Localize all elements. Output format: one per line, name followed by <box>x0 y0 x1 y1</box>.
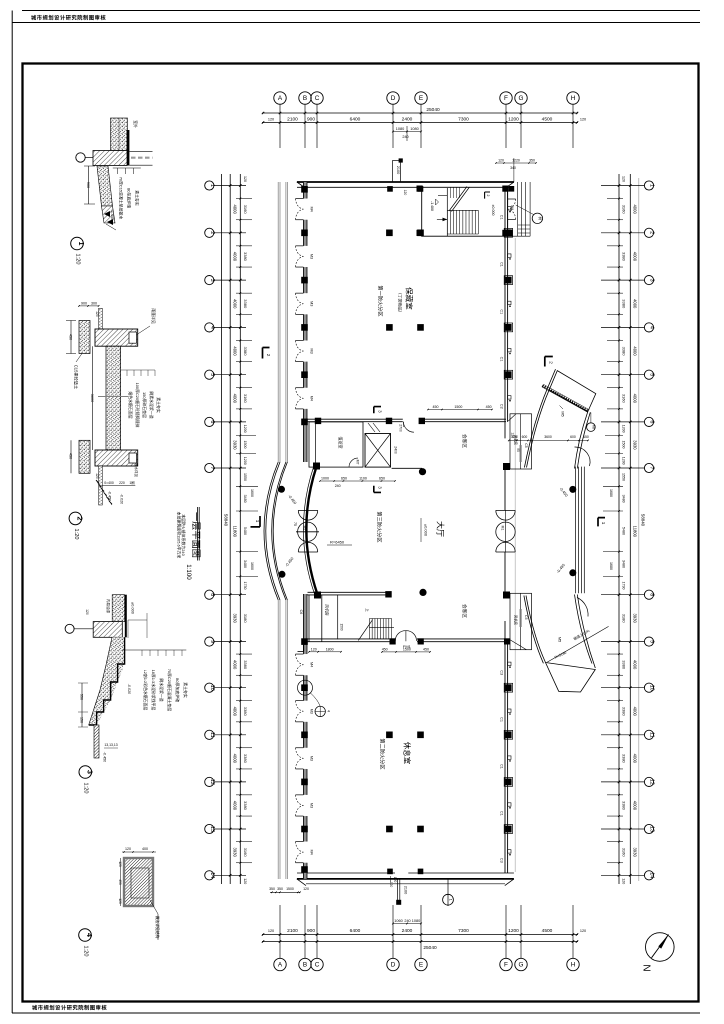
svg-text:3380: 3380 <box>621 801 626 811</box>
svg-text:3930: 3930 <box>232 440 237 450</box>
svg-text:3180: 3180 <box>621 614 626 624</box>
svg-text:第三防火分区: 第三防火分区 <box>376 511 384 542</box>
svg-text:120: 120 <box>303 887 309 891</box>
svg-text:F: F <box>504 95 508 102</box>
svg-text:M2: M2 <box>303 526 307 531</box>
svg-text:120: 120 <box>580 929 586 933</box>
svg-text:1060: 1060 <box>394 919 402 923</box>
svg-text:4000: 4000 <box>232 660 237 670</box>
svg-text:120: 120 <box>243 878 247 884</box>
svg-text:900: 900 <box>86 182 90 188</box>
svg-text:120: 120 <box>498 159 504 163</box>
svg-text:2400: 2400 <box>394 446 398 454</box>
svg-text:H: H <box>571 962 576 969</box>
svg-text:18厚1:3水泥砂浆找平层: 18厚1:3水泥砂浆找平层 <box>151 670 156 711</box>
svg-text:FM1: FM1 <box>403 644 412 649</box>
svg-text:75: 75 <box>293 522 297 526</box>
svg-text:C5: C5 <box>524 443 528 447</box>
svg-text:D: D <box>391 95 396 102</box>
svg-text:4000: 4000 <box>232 754 237 764</box>
svg-text:4000: 4000 <box>633 252 638 262</box>
svg-text:400: 400 <box>142 847 148 851</box>
svg-text:C1: C1 <box>500 764 504 769</box>
svg-text:120: 120 <box>621 878 625 884</box>
svg-text:4: 4 <box>85 933 92 937</box>
svg-text:雨蓬详见: 雨蓬详见 <box>151 308 156 324</box>
svg-text:本层防火缝体系数为240: 本层防火缝体系数为240 <box>181 514 186 556</box>
svg-text:1200: 1200 <box>243 457 247 465</box>
svg-text:C1: C1 <box>500 357 504 362</box>
svg-text:11: 11 <box>649 732 655 738</box>
svg-text:3480: 3480 <box>243 495 247 503</box>
svg-text:做法详见结构: 做法详见结构 <box>155 916 160 939</box>
svg-text:100厚C20细石砼随捣随抹: 100厚C20细石砼随捣随抹 <box>135 383 140 428</box>
svg-text:2: 2 <box>549 361 554 364</box>
svg-text:650: 650 <box>379 477 385 481</box>
svg-text:3380: 3380 <box>621 347 626 357</box>
svg-text:M1: M1 <box>501 526 505 531</box>
svg-text:9: 9 <box>649 640 655 643</box>
svg-text:10: 10 <box>649 685 655 691</box>
svg-text:树: 树 <box>538 217 543 221</box>
svg-text:8: 8 <box>649 593 655 596</box>
svg-text:-0.020: -0.020 <box>127 684 131 694</box>
svg-text:B0厚灰底炉碴: B0厚灰底炉碴 <box>175 678 180 702</box>
svg-text:L2剖1:2彩色水磨石面层: L2剖1:2彩色水磨石面层 <box>143 670 148 711</box>
svg-text:M4: M4 <box>310 396 314 401</box>
svg-text:城市规划设计研究院制图审核: 城市规划设计研究院制图审核 <box>32 1004 107 1012</box>
svg-text:-0.020: -0.020 <box>120 494 124 504</box>
svg-text:1550: 1550 <box>621 473 625 481</box>
svg-text:3600: 3600 <box>90 394 94 402</box>
svg-text:1220: 1220 <box>512 159 520 163</box>
svg-text:M7: M7 <box>356 460 360 465</box>
svg-text:4500: 4500 <box>542 116 553 122</box>
svg-text:R=6450: R=6450 <box>330 540 345 545</box>
svg-text:4: 4 <box>649 326 655 329</box>
svg-text:刷素水泥浆一道: 刷素水泥浆一道 <box>149 391 154 418</box>
svg-text:1:100: 1:100 <box>185 564 192 580</box>
svg-text:H: H <box>571 95 576 102</box>
svg-text:-1.488: -1.488 <box>430 201 434 211</box>
svg-text:B0灰底炉碴: B0灰底炉碴 <box>127 188 132 208</box>
svg-text:1080: 1080 <box>410 127 418 131</box>
svg-text:58840: 58840 <box>641 514 646 527</box>
svg-text:3380: 3380 <box>621 299 626 309</box>
svg-text:90: 90 <box>516 448 520 452</box>
svg-text:120: 120 <box>621 176 625 182</box>
svg-text:350: 350 <box>269 887 275 891</box>
svg-text:3380: 3380 <box>243 707 248 717</box>
svg-text:12: 12 <box>649 779 655 785</box>
svg-text:120: 120 <box>95 311 99 317</box>
svg-text:220: 220 <box>119 481 125 485</box>
svg-text:M4: M4 <box>310 207 314 212</box>
svg-text:M3: M3 <box>310 301 314 306</box>
svg-text:2: 2 <box>486 195 490 197</box>
svg-text:4000: 4000 <box>633 660 638 670</box>
svg-text:4000: 4000 <box>633 204 638 214</box>
svg-text:3: 3 <box>649 279 655 282</box>
svg-text:1: 1 <box>77 242 84 246</box>
svg-text:素土夯实: 素土夯实 <box>135 190 140 206</box>
svg-text:大厅: 大厅 <box>435 521 445 537</box>
svg-text:7: 7 <box>649 467 655 470</box>
svg-text:M3: M3 <box>310 803 314 808</box>
svg-text:-1.450: -1.450 <box>110 209 115 221</box>
svg-text:3180: 3180 <box>243 614 248 624</box>
svg-text:11800: 11800 <box>232 526 237 538</box>
svg-text:4000: 4000 <box>232 299 237 309</box>
svg-text:M3: M3 <box>310 254 314 259</box>
svg-text:3930: 3930 <box>633 613 638 623</box>
svg-text:1200: 1200 <box>508 116 519 122</box>
svg-text:1刷: 1刷 <box>129 480 135 485</box>
svg-text:6400: 6400 <box>350 928 361 934</box>
svg-text:900: 900 <box>81 301 87 305</box>
svg-text:M3: M3 <box>310 348 314 353</box>
svg-text:C: C <box>315 95 320 102</box>
svg-text:3480: 3480 <box>621 560 625 568</box>
svg-text:D: D <box>391 962 396 969</box>
svg-text:120: 120 <box>403 190 407 196</box>
svg-text:1200: 1200 <box>621 425 625 433</box>
svg-text:900: 900 <box>307 928 315 934</box>
svg-text:0=400: 0=400 <box>104 481 114 485</box>
svg-text:1:20: 1:20 <box>75 254 81 265</box>
svg-text:4000: 4000 <box>633 707 638 717</box>
svg-text:25040: 25040 <box>426 107 440 113</box>
svg-text:1080: 1080 <box>396 127 404 131</box>
svg-text:240: 240 <box>402 135 408 139</box>
svg-text:N: N <box>641 964 652 971</box>
svg-text:13: 13 <box>649 826 655 832</box>
svg-text:2: 2 <box>266 354 271 357</box>
svg-text:11800: 11800 <box>633 526 638 538</box>
svg-text:4: 4 <box>327 710 331 712</box>
svg-text:1500: 1500 <box>340 623 344 630</box>
svg-text:120: 120 <box>118 861 122 867</box>
svg-text:150厚碎石垫层: 150厚碎石垫层 <box>142 392 147 418</box>
svg-text:5: 5 <box>649 373 655 376</box>
svg-text:3930: 3930 <box>633 440 638 450</box>
svg-text:保藏室: 保藏室 <box>405 287 415 310</box>
svg-text:C6: C6 <box>299 610 303 615</box>
svg-text:1680: 1680 <box>609 562 613 570</box>
svg-text:1550: 1550 <box>243 473 247 481</box>
svg-text:1730: 1730 <box>621 582 625 590</box>
svg-text:2: 2 <box>75 516 82 520</box>
svg-text:2100: 2100 <box>287 116 298 122</box>
svg-text:120: 120 <box>389 882 393 888</box>
svg-text:25040: 25040 <box>423 945 437 951</box>
svg-text:120: 120 <box>268 929 274 933</box>
svg-text:350: 350 <box>529 159 535 163</box>
svg-text:（丁类物品）: （丁类物品） <box>398 291 404 315</box>
svg-text:值班室: 值班室 <box>338 437 344 449</box>
svg-text:室外: 室外 <box>133 120 138 128</box>
svg-text:会客区: 会客区 <box>461 434 468 448</box>
svg-text:刷水泥浆一道: 刷水泥浆一道 <box>159 678 164 701</box>
svg-text:1600: 1600 <box>250 489 254 497</box>
svg-text:340: 340 <box>510 166 516 170</box>
svg-text:1:20: 1:20 <box>83 946 89 957</box>
svg-text:120: 120 <box>125 847 131 851</box>
svg-text:3380: 3380 <box>243 754 248 764</box>
svg-text:3380: 3380 <box>621 252 626 262</box>
svg-text:A: A <box>278 95 283 102</box>
svg-text:3930: 3930 <box>633 847 638 857</box>
svg-text:M5: M5 <box>561 411 566 417</box>
svg-text:5480: 5480 <box>243 527 247 535</box>
svg-text:450: 450 <box>433 405 439 409</box>
svg-text:4500: 4500 <box>542 928 553 934</box>
svg-text:600: 600 <box>570 435 576 439</box>
svg-text:1500: 1500 <box>621 441 625 449</box>
svg-text:120: 120 <box>85 609 89 615</box>
svg-text:3380: 3380 <box>243 299 248 309</box>
svg-text:120: 120 <box>118 898 122 904</box>
svg-text:2400: 2400 <box>402 928 413 934</box>
svg-text:素土夯实: 素土夯实 <box>183 682 188 698</box>
svg-text:350: 350 <box>277 887 283 891</box>
svg-text:C3: C3 <box>500 670 504 675</box>
svg-text:B: B <box>303 95 307 102</box>
svg-text:550: 550 <box>80 694 84 700</box>
svg-text:C5: C5 <box>524 615 528 619</box>
svg-text:会客区: 会客区 <box>461 604 468 618</box>
svg-text:3600: 3600 <box>544 435 552 439</box>
svg-text:4000: 4000 <box>633 394 638 404</box>
svg-text:M3: M3 <box>310 709 314 714</box>
svg-text:450: 450 <box>118 879 122 885</box>
svg-text:C1: C1 <box>500 309 504 314</box>
svg-text:4000: 4000 <box>232 707 237 717</box>
svg-text:1080: 1080 <box>412 919 420 923</box>
svg-text:6: 6 <box>649 420 655 423</box>
svg-text:3160: 3160 <box>621 848 626 858</box>
svg-text:4000: 4000 <box>633 801 638 811</box>
svg-text:4000: 4000 <box>232 394 237 404</box>
svg-text:风机房: 风机房 <box>325 604 330 616</box>
svg-text:6400: 6400 <box>350 116 361 122</box>
svg-text:7300: 7300 <box>458 928 469 934</box>
svg-text:内易油漆: 内易油漆 <box>106 599 111 614</box>
svg-text:3930: 3930 <box>232 613 237 623</box>
svg-text:58840: 58840 <box>224 514 229 527</box>
svg-text:第一防火分区: 第一防火分区 <box>377 285 385 316</box>
svg-text:C3: C3 <box>500 858 504 863</box>
svg-text:风机房: 风机房 <box>514 615 519 626</box>
svg-text:第二防火分区: 第二防火分区 <box>379 738 387 769</box>
svg-text:2400: 2400 <box>402 116 413 122</box>
svg-text:1500: 1500 <box>454 405 462 409</box>
svg-text:上: 上 <box>365 608 370 612</box>
svg-text:1000: 1000 <box>321 477 329 481</box>
svg-text:120: 120 <box>311 647 317 651</box>
svg-text:450: 450 <box>382 647 388 651</box>
svg-text:1: 1 <box>601 522 606 525</box>
svg-text:1200: 1200 <box>621 457 625 465</box>
svg-text:3480: 3480 <box>621 495 625 503</box>
svg-text:4000: 4000 <box>232 346 237 356</box>
svg-text:-0.450: -0.450 <box>102 752 106 762</box>
svg-text:450: 450 <box>69 334 73 340</box>
svg-text:本层建筑面积1105.6平方米: 本层建筑面积1105.6平方米 <box>176 512 181 559</box>
svg-text:-0.450: -0.450 <box>107 491 111 501</box>
svg-text:1500: 1500 <box>286 887 294 891</box>
svg-text:B: B <box>303 962 307 969</box>
svg-text:120: 120 <box>243 176 247 182</box>
svg-text:2100: 2100 <box>396 166 400 174</box>
svg-text:城市规划设计研究院制图审核: 城市规划设计研究院制图审核 <box>31 14 106 22</box>
svg-text:4000: 4000 <box>633 346 638 356</box>
svg-text:M5: M5 <box>558 637 563 643</box>
svg-text:1500: 1500 <box>243 441 247 449</box>
svg-text:C2: C2 <box>500 404 504 409</box>
svg-text:M3: M3 <box>310 756 314 761</box>
svg-text:3380: 3380 <box>621 660 626 670</box>
svg-text:120: 120 <box>268 117 274 121</box>
svg-text:3: 3 <box>85 770 92 774</box>
svg-text:G: G <box>519 95 524 102</box>
svg-text:150: 150 <box>80 717 84 723</box>
svg-text:3380: 3380 <box>621 754 626 764</box>
svg-text:3380: 3380 <box>243 347 248 357</box>
svg-text:±0.000: ±0.000 <box>491 205 495 216</box>
svg-text:13,13,13: 13,13,13 <box>104 743 117 747</box>
svg-text:E: E <box>419 95 423 102</box>
svg-text:3160: 3160 <box>243 205 248 215</box>
svg-text:70厚C20细石混凝土垫层: 70厚C20细石混凝土垫层 <box>167 669 172 712</box>
svg-text:1680: 1680 <box>609 489 613 497</box>
svg-text:C1: C1 <box>500 717 504 722</box>
svg-text:C1: C1 <box>500 262 504 267</box>
svg-text:±0.000: ±0.000 <box>424 524 429 537</box>
svg-text:M4: M4 <box>510 206 514 211</box>
svg-text:1730: 1730 <box>243 582 247 590</box>
svg-text:70厚C15混凝土垫层散水: 70厚C15混凝土垫层散水 <box>119 177 124 220</box>
svg-text:M4: M4 <box>310 662 314 667</box>
svg-text:3160: 3160 <box>621 394 626 404</box>
svg-text:1:20: 1:20 <box>83 783 89 794</box>
svg-text:4000: 4000 <box>232 252 237 262</box>
svg-text:4000: 4000 <box>232 801 237 811</box>
svg-text:1200: 1200 <box>243 425 247 433</box>
svg-text:2700: 2700 <box>399 424 403 432</box>
svg-text:1600: 1600 <box>250 562 254 570</box>
svg-text:150: 150 <box>583 435 589 439</box>
svg-text:风机房: 风机房 <box>514 435 519 446</box>
svg-text:450: 450 <box>69 453 73 459</box>
svg-text:14: 14 <box>649 872 655 878</box>
svg-text:3380: 3380 <box>243 252 248 262</box>
svg-text:240: 240 <box>335 484 341 488</box>
svg-text:3380: 3380 <box>243 801 248 811</box>
svg-text:3160: 3160 <box>243 848 248 858</box>
svg-text:450: 450 <box>423 647 429 651</box>
svg-text:G: G <box>519 962 524 969</box>
svg-text:休息室: 休息室 <box>403 742 413 765</box>
svg-text:烟色水磨石面层: 烟色水磨石面层 <box>128 391 133 418</box>
svg-text:素土夯实: 素土夯实 <box>156 397 161 413</box>
svg-text:±0.000: ±0.000 <box>130 602 135 615</box>
svg-text:1200: 1200 <box>508 928 519 934</box>
svg-text:300: 300 <box>91 301 97 305</box>
svg-text:4000: 4000 <box>232 204 237 214</box>
svg-text:120: 120 <box>580 117 586 121</box>
svg-text:3380: 3380 <box>243 660 248 670</box>
svg-text:120: 120 <box>95 473 99 479</box>
svg-text:5480: 5480 <box>621 527 625 535</box>
svg-text:E: E <box>419 962 423 969</box>
svg-text:450: 450 <box>486 405 492 409</box>
svg-text:2: 2 <box>649 231 655 234</box>
svg-text:C15素砼垫土: C15素砼垫土 <box>74 365 80 389</box>
svg-text:C: C <box>315 962 320 969</box>
svg-text:M4: M4 <box>310 850 314 855</box>
svg-text:1: 1 <box>255 520 260 523</box>
svg-text:4000: 4000 <box>633 754 638 764</box>
svg-text:1: 1 <box>649 184 655 187</box>
svg-text:2100: 2100 <box>287 928 298 934</box>
svg-text:3160: 3160 <box>621 205 626 215</box>
svg-text:900: 900 <box>307 116 315 122</box>
svg-text:散水详见: 散水详见 <box>134 463 139 477</box>
svg-text:2100: 2100 <box>404 886 408 894</box>
svg-text:1800: 1800 <box>326 647 334 651</box>
svg-text:3380: 3380 <box>621 707 626 717</box>
svg-text:1:20: 1:20 <box>73 529 79 540</box>
svg-text:3930: 3930 <box>232 847 237 857</box>
svg-text:A: A <box>278 962 283 969</box>
svg-text:C1: C1 <box>500 811 504 816</box>
svg-text:C1: C1 <box>500 215 504 220</box>
svg-text:7300: 7300 <box>458 116 469 122</box>
svg-text:600: 600 <box>522 435 528 439</box>
svg-text:F: F <box>504 962 508 969</box>
svg-text:3480: 3480 <box>243 560 247 568</box>
svg-text:4000: 4000 <box>633 299 638 309</box>
svg-text:3160: 3160 <box>243 394 248 404</box>
svg-text:M5: M5 <box>591 425 595 429</box>
